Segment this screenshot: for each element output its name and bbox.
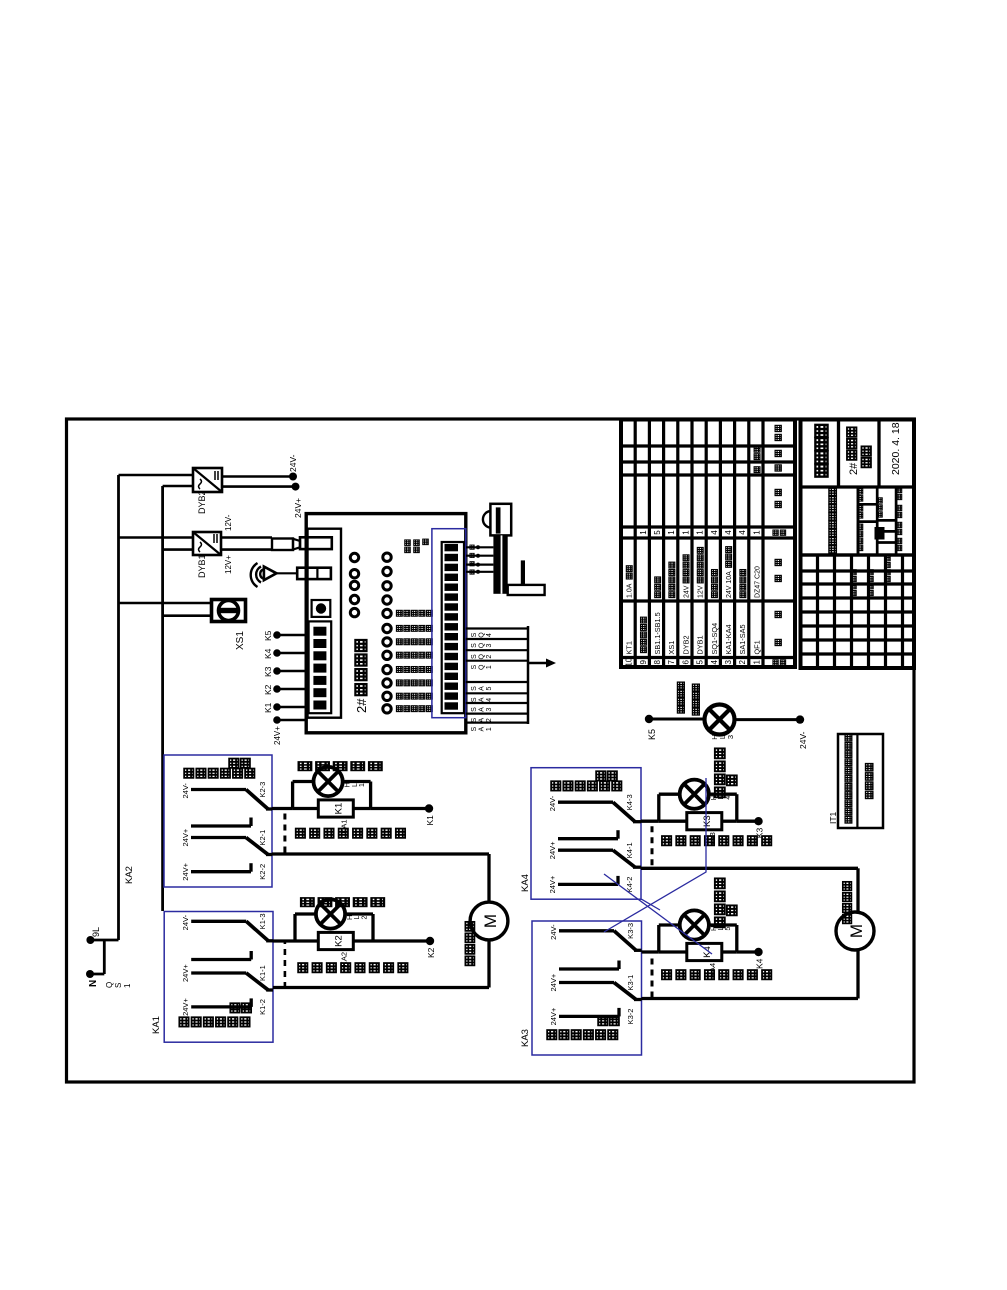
branch junctions for HL1/K1 (291, 782, 294, 809)
svg-text:3: 3 (486, 707, 493, 711)
svg-text:SB1.1-SB1.5: SB1.1-SB1.5 (653, 612, 662, 654)
svg-text:S: S (471, 707, 478, 712)
contact K1-3 of KA1 (191, 920, 246, 923)
contact K3-3 of KA3 (559, 929, 614, 932)
contact K2-1 of KA2 (191, 836, 246, 839)
contact K1-2 of KA1 (191, 1005, 251, 1008)
svg-text:12V: 12V (698, 585, 705, 598)
svg-text:A: A (479, 697, 486, 702)
svg-text:3: 3 (726, 735, 735, 739)
relay KA1 contact group (blue box) (164, 912, 273, 1043)
svg-text:H: H (345, 782, 352, 787)
mechanical link dashes KA1 (284, 942, 287, 988)
svg-text:S: S (471, 726, 478, 731)
svg-text:Q: Q (479, 664, 486, 670)
svg-text:K2-2: K2-2 (258, 864, 267, 880)
relay coil K1 (KA1) (293, 807, 319, 810)
svg-text:H: H (347, 915, 354, 920)
wire K5 to 24V- (649, 718, 704, 721)
contact K4-1 of KA4 (558, 849, 613, 852)
BOM parts table (621, 420, 795, 668)
lamp HL3 manual/auto indicator (705, 705, 735, 735)
wire DYB2 outputs 24V- / 24V+ (222, 475, 293, 478)
svg-text:24V: 24V (683, 585, 690, 598)
svg-text:K1: K1 (263, 702, 273, 713)
wire from contact to K2 branch (273, 939, 295, 942)
svg-text:S: S (471, 686, 478, 691)
svg-text:IT1: IT1 (828, 811, 838, 824)
bottom header words (896, 545, 901, 550)
svg-text:6: 6 (681, 659, 690, 664)
svg-text:A: A (479, 686, 486, 691)
terminal block IT1 note box (838, 734, 883, 828)
svg-text:K1: K1 (333, 803, 344, 815)
svg-text:24V-: 24V- (548, 795, 557, 811)
terminals K1-K5 and 24V+ feed (277, 706, 308, 708)
svg-text:DZ47 C20: DZ47 C20 (754, 566, 761, 598)
module output terminal strip (blue) (432, 529, 466, 718)
svg-text:1: 1 (486, 665, 493, 669)
svg-text:24V+: 24V+ (548, 875, 557, 893)
antenna connector port (297, 568, 331, 579)
svg-text:M: M (481, 914, 500, 928)
table row 9 code blob (641, 647, 647, 653)
wire: AC bus line L (top horizontal) (117, 475, 120, 940)
svg-text:K4-3: K4-3 (625, 794, 634, 810)
svg-text:QF1: QF1 (752, 640, 761, 654)
svg-text:3: 3 (486, 643, 493, 647)
svg-text:XS1: XS1 (235, 631, 246, 650)
svg-text:1: 1 (681, 530, 690, 535)
svg-text:K5: K5 (263, 630, 273, 641)
svg-text:KT1: KT1 (625, 641, 634, 654)
contact K4-2 of KA4 (558, 883, 618, 886)
svg-text:4: 4 (486, 698, 493, 702)
svg-text:K1-2: K1-2 (258, 999, 267, 1015)
wire from contact to K3 branch (641, 820, 659, 823)
svg-text:K1-1: K1-1 (258, 965, 267, 981)
svg-text:12V-: 12V- (224, 514, 233, 531)
svg-text:24V+: 24V+ (548, 841, 557, 859)
module U1: 2# illumination module box (306, 514, 466, 733)
contact K4-3 of KA4 (558, 801, 613, 804)
label text inside KA1 (179, 1017, 188, 1026)
svg-text:K4-1: K4-1 (625, 842, 634, 858)
svg-text:K4: K4 (755, 958, 765, 969)
wire KA4 contact to roller motor (641, 867, 858, 870)
svg-text:K3-2: K3-2 (626, 1009, 635, 1025)
svg-text:24V-: 24V- (549, 924, 558, 940)
svg-text:DYB1: DYB1 (197, 554, 207, 578)
node 24V- terminal (796, 715, 804, 723)
svg-text:4: 4 (710, 530, 719, 535)
contact terminal of KA1 (191, 958, 251, 961)
svg-text:24V-: 24V- (181, 914, 190, 930)
module indicator pins row 1 (350, 553, 358, 561)
svg-text:DYB1: DYB1 (696, 635, 705, 654)
svg-text:K3-1: K3-1 (626, 975, 635, 991)
wire DYB1 input stubs (119, 536, 194, 539)
wire KA3 contact to roller motor (642, 997, 859, 1000)
node N supply terminal (103, 940, 106, 974)
company name cell (837, 420, 840, 488)
svg-text:24V-: 24V- (798, 731, 808, 749)
svg-text:2020. 4. 18: 2020. 4. 18 (890, 422, 902, 475)
relay coil K2 (KA2) (295, 939, 318, 942)
wire collector bus with arrow (527, 626, 530, 724)
module indicator pins row 2 (383, 553, 391, 561)
svg-text:K1-3: K1-3 (258, 913, 267, 929)
svg-text:24V-: 24V- (288, 454, 298, 472)
lamp HL2 (295, 912, 316, 915)
svg-text:SQ1-SQ4: SQ1-SQ4 (710, 623, 719, 655)
svg-text:K1: K1 (425, 815, 435, 826)
svg-text:SA1-SA5: SA1-SA5 (738, 624, 747, 654)
svg-text:9: 9 (639, 659, 648, 664)
contact terminal of KA4 (558, 837, 618, 840)
svg-text:XS1: XS1 (667, 641, 676, 655)
contact K3-2 of KA3 (559, 1015, 619, 1018)
page border frame (67, 419, 915, 1082)
svg-text:1: 1 (359, 783, 366, 787)
relay KA4 contact group (blue box) (531, 768, 641, 900)
svg-text:K3: K3 (263, 666, 273, 677)
contact terminal of KA2 (191, 824, 251, 827)
svg-text:10: 10 (625, 657, 634, 666)
contact K2-2 of KA2 (191, 870, 251, 873)
svg-text:1: 1 (486, 727, 493, 731)
svg-text:1: 1 (639, 530, 648, 535)
svg-text:S: S (471, 632, 478, 637)
branch junctions for HL4/K3 (657, 794, 660, 821)
svg-text:24V+: 24V+ (549, 973, 558, 991)
svg-text:8: 8 (653, 659, 662, 664)
svg-text:K2: K2 (426, 947, 436, 958)
svg-text:KA1-KA4: KA1-KA4 (724, 624, 733, 654)
label manual/auto indicator (677, 706, 684, 713)
svg-text:S: S (471, 643, 478, 648)
svg-text:9L: 9L (91, 927, 101, 937)
svg-text:K3: K3 (702, 815, 713, 827)
svg-text:S: S (471, 665, 478, 670)
coil circuit description (662, 836, 671, 845)
wire to terminal K2 (353, 939, 373, 942)
wire DYB2 input stubs (119, 474, 194, 477)
sensor wire labels (470, 570, 474, 574)
sensor foot (508, 585, 545, 595)
svg-text:4: 4 (724, 530, 733, 535)
svg-text:Q: Q (479, 642, 486, 648)
XS1 connector port with indicator (312, 600, 331, 617)
label text inside KA4 (551, 781, 560, 790)
module top connector strip (308, 529, 342, 718)
coil circuit description (662, 970, 671, 979)
coil circuit description (296, 829, 305, 838)
svg-text:KA4: KA4 (520, 874, 531, 892)
svg-text:K2: K2 (263, 684, 273, 695)
antenna symbol (251, 563, 258, 587)
wire KA1 contact to vent motor (273, 986, 489, 989)
svg-text:1: 1 (667, 530, 676, 535)
svg-text:K5: K5 (647, 729, 657, 740)
svg-text:DYB2: DYB2 (681, 635, 690, 654)
wire from contact to K4 branch (642, 950, 659, 953)
branch title text (301, 898, 313, 906)
svg-text:1: 1 (696, 530, 705, 535)
svg-text:5: 5 (725, 926, 732, 930)
lamp HL5 (659, 923, 680, 926)
relay KA2 contact group (blue box) (164, 755, 272, 887)
coil circuit description (298, 963, 307, 972)
battery plug connector (272, 539, 293, 551)
contact K3-1 of KA3 (559, 981, 614, 984)
svg-text:2: 2 (361, 915, 368, 919)
socket XS1 (212, 600, 246, 622)
svg-text:A: A (479, 726, 486, 731)
svg-text:Q: Q (479, 653, 486, 659)
svg-text:7: 7 (667, 659, 676, 664)
motor M1 vent motor (470, 902, 508, 940)
svg-text:K2-3: K2-3 (258, 782, 267, 798)
svg-text:12V+: 12V+ (224, 555, 233, 574)
svg-text:4: 4 (486, 633, 493, 637)
title block signature grid (801, 652, 915, 655)
wire from contact to K1 branch (272, 807, 293, 810)
svg-text:24V+: 24V+ (181, 998, 190, 1016)
wire KA2 contact to vent motor (272, 852, 489, 855)
table header row (773, 660, 778, 665)
wire: AC bus line N (second horizontal) (161, 486, 164, 911)
svg-text:24V+: 24V+ (181, 828, 190, 846)
module input terminal strip K1..K5 (309, 621, 332, 713)
wire to terminal K4 (722, 950, 737, 953)
mechanical link dashes KA2 (283, 810, 286, 853)
signature grid small texts (851, 590, 856, 595)
svg-text:L: L (352, 783, 359, 787)
svg-text:5: 5 (696, 659, 705, 664)
contact terminal of KA3 (559, 967, 619, 970)
svg-text:S: S (471, 717, 478, 722)
svg-text:K2: K2 (333, 935, 344, 947)
node 9L supply terminal (90, 939, 118, 942)
svg-text:L: L (354, 915, 361, 919)
svg-text:DYB2: DYB2 (197, 490, 207, 514)
title block middle section (801, 553, 915, 556)
relay KA3 contact group (blue box) (532, 921, 642, 1055)
svg-text:2: 2 (486, 718, 493, 722)
branch title text (715, 787, 725, 797)
relay coil K4 (KA4) (659, 950, 687, 953)
svg-text:24V+: 24V+ (273, 726, 282, 745)
svg-text:2: 2 (738, 659, 747, 664)
contact K1-1 of KA1 (191, 971, 246, 974)
drawing name cell (857, 487, 860, 555)
svg-text:A: A (479, 717, 486, 722)
motor M2 roller shutter motor (836, 912, 874, 950)
svg-text:5: 5 (653, 530, 662, 535)
lamp HL1 (293, 780, 314, 783)
svg-text:M: M (847, 924, 866, 938)
svg-text:4: 4 (710, 659, 719, 664)
svg-text:24V-: 24V- (181, 783, 190, 799)
svg-text:4: 4 (725, 796, 732, 800)
svg-text:K3-3: K3-3 (626, 923, 635, 939)
label text inside KA2 (184, 769, 193, 778)
svg-text:S: S (114, 983, 123, 988)
svg-text:Q: Q (479, 632, 486, 638)
branch junctions for HL5/K4 (657, 925, 660, 952)
svg-text:1: 1 (123, 983, 132, 988)
power supply DYB1 12V battery (box with diagonal) (193, 532, 221, 555)
svg-text:24V 10A: 24V 10A (726, 571, 733, 598)
table remark blobs (754, 454, 760, 460)
pin function labels (396, 610, 402, 616)
svg-text:K2-1: K2-1 (258, 830, 267, 846)
wire XS1 stubs (119, 602, 212, 605)
svg-text:4: 4 (738, 530, 747, 535)
svg-text:5: 5 (486, 686, 493, 690)
svg-text:KA2: KA2 (124, 866, 135, 884)
wire to terminal K1 (353, 807, 370, 810)
svg-text:2: 2 (486, 655, 493, 659)
contact K2-3 of KA2 (191, 788, 246, 791)
svg-text:1: 1 (752, 659, 761, 664)
node K5 terminal (645, 715, 653, 723)
title block frame (801, 420, 915, 669)
svg-text:24V+: 24V+ (293, 498, 303, 518)
svg-text:KA3: KA3 (520, 1029, 531, 1047)
branch title text (715, 917, 725, 927)
sensor wires to module (466, 546, 493, 548)
svg-text:2#: 2# (354, 698, 369, 713)
svg-text:N: N (88, 980, 99, 987)
middle small cells row (876, 487, 879, 555)
svg-text:24V+: 24V+ (549, 1007, 558, 1025)
svg-text:1: 1 (752, 530, 761, 535)
sensor cable (493, 535, 507, 593)
label text inside KA3 (547, 1030, 556, 1039)
svg-text:S: S (471, 697, 478, 702)
wire DYB1 to module plug (221, 536, 272, 539)
svg-text:S: S (471, 654, 478, 659)
wires SA1-SA5 SQ1-SQ4 from module outputs (466, 721, 528, 723)
relay coil K3 (KA3) (659, 820, 687, 823)
mechanical link dashes KA4 (651, 823, 654, 866)
svg-text:2#: 2# (848, 462, 860, 475)
blue interlock wires (604, 778, 706, 932)
svg-text:3: 3 (724, 659, 733, 664)
svg-text:24V+: 24V+ (181, 862, 190, 880)
svg-text:A: A (479, 707, 486, 712)
thin cells row (895, 487, 898, 555)
svg-text:Q: Q (105, 982, 114, 988)
branch junctions for HL2/K2 (293, 914, 296, 941)
wire to terminal K3 (722, 820, 737, 823)
branch title text (299, 762, 311, 770)
svg-text:K4: K4 (263, 648, 273, 659)
svg-text:1.0A: 1.0A (627, 583, 634, 598)
mechanical link dashes KA3 (651, 951, 654, 997)
power supply DYB2 24V (box with diagonal) (193, 468, 222, 492)
lamp HL4 (659, 793, 680, 796)
svg-text:24V+: 24V+ (181, 964, 190, 982)
svg-text:KA1: KA1 (151, 1016, 162, 1034)
light sensor probe connector (490, 504, 511, 536)
